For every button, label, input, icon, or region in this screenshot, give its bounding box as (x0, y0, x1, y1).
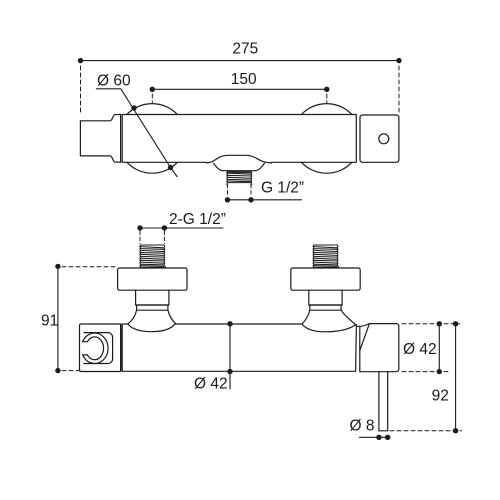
shower holder ring inner arc (87, 337, 103, 360)
top view outlet boss skirt right (255, 163, 264, 171)
diameter 60 leader dot upper (131, 105, 136, 110)
top view right circle top arc (301, 104, 352, 115)
top view left wall stub and collar (80, 115, 120, 163)
right diameter 42 dashed extension top (402, 323, 460, 325)
91 dimension dot bottom (55, 368, 60, 373)
svg-text:Ø 60: Ø 60 (97, 72, 131, 89)
svg-text:Ø 42: Ø 42 (403, 341, 437, 358)
knob collar line (359, 327, 361, 350)
shower holder ring outer arc (83, 333, 108, 363)
dimension 275 dot right (396, 58, 401, 63)
dimension 275 extension dashed right (398, 66, 400, 114)
svg-text:Ø 42: Ø 42 (194, 376, 228, 393)
91 dimension dot top (55, 264, 60, 269)
svg-text:2-G 1/2”: 2-G 1/2” (169, 211, 226, 228)
top view outlet boss base line (223, 170, 256, 172)
dimension 150 line (152, 88, 326, 90)
dimension 150 extension dashed left (151, 94, 153, 103)
right diameter 42 dimension line (438, 324, 440, 372)
2-G 1/2 dimension dot left (137, 225, 142, 230)
top view end cap square (360, 115, 399, 162)
right inlet bell (302, 310, 356, 332)
92 dashed extension bottom (390, 430, 462, 432)
top view outlet thread G 1/2 (227, 171, 252, 185)
diameter 60 leader dot lower (168, 165, 173, 170)
center diameter 42 dot top (227, 321, 232, 326)
top view outlet boss dome (207, 155, 272, 163)
2-G 1/2 dashed extension right (163, 231, 165, 244)
shower holder ring gap ends (83, 342, 88, 355)
left inlet bell (128, 310, 176, 332)
92 dimension dot bottom (453, 428, 458, 433)
shower holder outer body (80, 324, 122, 372)
G 1/2 dimension dot left (225, 197, 230, 202)
G 1/2 dimension dashed extension right (250, 185, 252, 197)
91 dimension vertical line (57, 266, 59, 370)
svg-text:91: 91 (41, 312, 58, 329)
top view outlet boss skirt left (214, 163, 223, 171)
dimension 275 line (81, 60, 400, 62)
right diameter 42 dot top (437, 321, 442, 326)
left inlet band (136, 305, 169, 310)
dimension 275 extension dashed left (80, 66, 82, 114)
92 dimension vertical line (455, 324, 457, 431)
top view main body outline (122, 115, 356, 163)
G 1/2 dimension line (228, 199, 302, 201)
svg-text:150: 150 (231, 71, 257, 88)
top view right circle bottom arc (301, 162, 352, 173)
front view body outline (122, 324, 356, 371)
knob transition curve (357, 324, 370, 327)
2-G 1/2 dimension line (140, 227, 223, 229)
diameter 60 leader line (96, 89, 177, 177)
G 1/2 dimension dashed extension left (227, 185, 229, 197)
shower holder inner outline (84, 333, 113, 364)
dimension 150 extension dashed right (326, 94, 328, 103)
G 1/2 dimension dot right (248, 197, 253, 202)
92 dimension dot top (453, 321, 458, 326)
center diameter 42 dot bottom (227, 369, 232, 374)
top view left circle (diameter 60) bottom arc (127, 162, 177, 173)
outlet pipe (379, 372, 388, 431)
center diameter 42 leader line (229, 324, 231, 389)
svg-text:G 1/2”: G 1/2” (261, 179, 304, 196)
left inlet flange (118, 268, 187, 290)
svg-text:275: 275 (232, 40, 258, 57)
right inlet thread (313, 245, 339, 267)
2-G 1/2 dimension dot right (162, 225, 167, 230)
right inlet flange (291, 268, 360, 290)
91 dashed extension top (62, 266, 117, 268)
front view body left end inner line (120, 324, 122, 371)
dimension 150 dot left (150, 87, 155, 92)
left inlet thread (140, 245, 166, 267)
svg-text:Ø 8: Ø 8 (350, 417, 375, 434)
2-G 1/2 dashed extension left (139, 231, 141, 244)
top view left circle (diameter 60) top arc (127, 104, 177, 115)
right inlet band (309, 305, 342, 310)
diameter 8 dimension line (359, 436, 390, 438)
top view end cap hole (379, 134, 389, 144)
dimension 275 dot left (78, 58, 83, 63)
svg-text:92: 92 (432, 388, 449, 405)
dimension 150 dot right (324, 87, 329, 92)
diameter 8 dot left (376, 435, 381, 440)
right diameter 42 dashed extension bottom (402, 371, 451, 373)
temperature knob (360, 324, 399, 372)
diameter 8 dot right (385, 435, 390, 440)
right inlet connector (309, 290, 342, 305)
91 dashed extension bottom (62, 370, 80, 372)
left inlet connector (136, 290, 169, 305)
right diameter 42 dot bottom (437, 369, 442, 374)
